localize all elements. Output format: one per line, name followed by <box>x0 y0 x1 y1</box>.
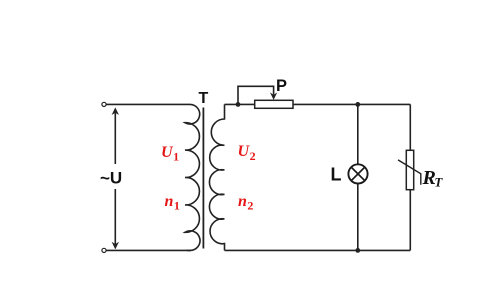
transformer core <box>202 108 204 249</box>
wiper arrowhead <box>270 93 277 100</box>
junction dot at secondary top <box>236 102 241 107</box>
wire: primary top from terminal to coil <box>107 103 188 105</box>
wire: bottom from secondary to right corner <box>225 249 411 251</box>
terminal top-left <box>102 102 106 106</box>
thermistor diagonal <box>398 160 421 185</box>
junction dot bottom (lamp branch) <box>355 248 360 253</box>
voltage arrow ~U (double-headed, broken at label) <box>112 107 119 249</box>
junction dot top (lamp branch) <box>355 102 360 107</box>
wire: wiper loop up and over <box>238 86 274 104</box>
terminal bottom-left <box>102 248 106 252</box>
potentiometer P body <box>255 100 293 108</box>
svg-text:L: L <box>331 165 342 185</box>
wire: right branch upper <box>409 104 411 150</box>
svg-text:~U: ~U <box>100 168 122 187</box>
svg-text:P: P <box>276 77 287 95</box>
wire: right branch lower <box>409 190 411 251</box>
wire: lamp branch lower <box>357 184 359 251</box>
svg-text:T: T <box>199 90 209 107</box>
transformer secondary coil n2 <box>209 104 224 250</box>
wire: top right from potentiometer to corner <box>293 103 410 105</box>
wire: secondary top to junction <box>225 103 255 105</box>
wire: primary bottom from terminal to coil <box>107 249 192 251</box>
thermistor RT body <box>406 150 413 189</box>
transformer primary coil n1 <box>185 104 200 250</box>
wire: lamp branch upper <box>357 104 359 164</box>
lamp L <box>348 164 367 183</box>
